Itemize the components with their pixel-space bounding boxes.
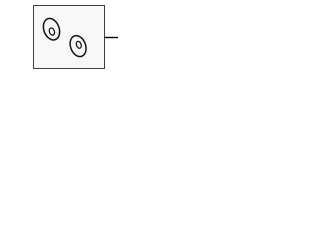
grommet 1 outer: [41, 16, 63, 42]
grommet 2 outer: [67, 33, 88, 58]
part box: [34, 6, 105, 69]
leader line: [105, 37, 119, 39]
grommet 1 hole: [48, 27, 55, 36]
grommet 2 hole: [75, 41, 82, 49]
